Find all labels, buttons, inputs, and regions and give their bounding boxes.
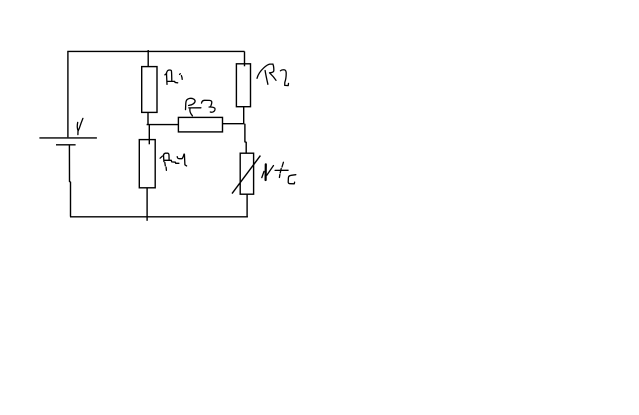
- label R1: [165, 70, 182, 84]
- wire node B down to NTC: [245, 124, 246, 154]
- battery V long plate: [39, 137, 97, 139]
- thermistor NTC diagonal stroke: [232, 156, 260, 194]
- label NTC: [262, 162, 296, 184]
- wire top rail: [67, 50, 244, 52]
- wire node A down to R4: [148, 125, 150, 145]
- node A: wire to R3 left: [147, 124, 179, 126]
- label V: [77, 118, 83, 134]
- wire battery negative lead: [69, 145, 70, 217]
- wire bottom rail: [70, 216, 248, 218]
- resistor R3: [178, 117, 222, 131]
- resistor R1: [142, 67, 157, 113]
- wire R2 bottom to node B: [243, 107, 245, 124]
- label R3: [186, 98, 216, 115]
- resistor R4: [139, 140, 155, 188]
- battery V short plate: [56, 144, 76, 146]
- wire R1 top stub: [147, 50, 149, 67]
- wire battery positive lead (left vertical): [67, 51, 69, 137]
- wire NTC bottom to bottom-right corner: [246, 194, 248, 217]
- wire R1 bottom to node A: [147, 112, 149, 124]
- label R2: [257, 64, 289, 86]
- resistor R2: [236, 64, 250, 107]
- wire R4 bottom to bottom rail: [146, 188, 148, 221]
- label R4: [160, 153, 187, 170]
- thermistor NTC body: [240, 153, 253, 194]
- wire R3 right to node B: [223, 123, 245, 125]
- wire R2 top stub: [244, 51, 246, 66]
